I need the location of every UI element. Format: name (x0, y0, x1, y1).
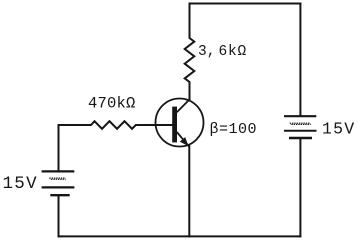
svg-text:β=100: β=100 (210, 121, 258, 138)
svg-text:15V: 15V (322, 120, 355, 139)
svg-text:15V: 15V (3, 174, 38, 194)
svg-text:3,: 3, (198, 44, 215, 60)
svg-text:6kΩ: 6kΩ (219, 44, 248, 60)
svg-text:470kΩ: 470kΩ (88, 94, 136, 112)
